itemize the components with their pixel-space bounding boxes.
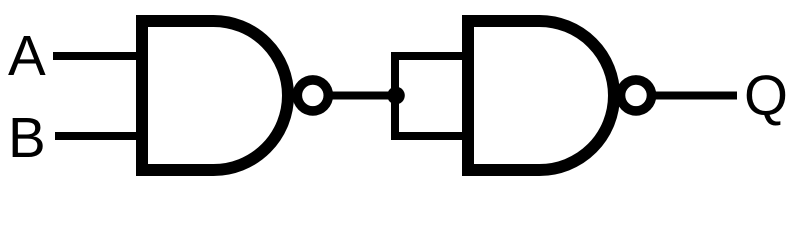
wire U1 output to junction	[330, 92, 395, 100]
wire input B	[55, 132, 148, 140]
svg-text:Q: Q	[744, 64, 788, 127]
nand gate U1 output bubble	[297, 80, 328, 111]
nand gate U2 output bubble	[621, 80, 652, 111]
nand gate U2 body	[468, 21, 614, 170]
nand gate U1 body	[142, 21, 288, 170]
wire junction to U2 bottom input	[391, 132, 474, 140]
wire junction to U2 top input	[391, 52, 474, 60]
wire input A	[53, 52, 148, 60]
wire junction vertical tie	[391, 56, 399, 136]
svg-text:B: B	[8, 106, 46, 169]
svg-text:A: A	[8, 24, 46, 87]
junction dot	[387, 87, 405, 105]
wire U2 output	[655, 92, 737, 100]
